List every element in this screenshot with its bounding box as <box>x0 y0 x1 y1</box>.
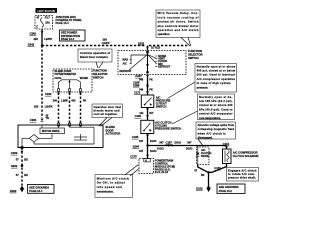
svg-text:DG/O: DG/O <box>175 141 181 144</box>
wire label 293 LB/PK <box>34 37 53 41</box>
svg-text:system air doors. Switch: system air doors. Switch <box>158 20 199 24</box>
ground G102 <box>196 186 211 192</box>
svg-text:LB/W: LB/W <box>61 100 68 103</box>
callout monitors a/c clutch <box>95 165 139 198</box>
svg-text:SWITCH: SWITCH <box>188 56 199 60</box>
svg-text:15A: 15A <box>45 22 50 25</box>
inline connector on bus <box>168 144 172 147</box>
svg-text:POTENTIOMETER: POTENTIOMETER <box>55 73 77 76</box>
svg-text:Normally open at be-: Normally open at be- <box>199 95 233 99</box>
svg-text:core temperature.: core temperature. <box>199 116 221 120</box>
svg-text:DG/O: DG/O <box>150 150 156 153</box>
actuator top pins <box>57 123 81 126</box>
svg-text:293: 293 <box>34 105 39 109</box>
powertrain control module (dashed box) <box>139 159 154 174</box>
svg-text:PK: PK <box>83 100 87 103</box>
wiper <box>68 80 70 89</box>
svg-text:LB/PK: LB/PK <box>102 41 110 45</box>
splice S202 <box>11 164 23 168</box>
svg-text:BK: BK <box>24 157 28 161</box>
bus wire 293 LB/PK (dashed, to selector area) <box>42 45 146 47</box>
svg-text:PAGE 13-4: PAGE 13-4 <box>29 189 43 193</box>
svg-text:293: 293 <box>103 38 108 42</box>
svg-text:control A/C evaporator: control A/C evaporator <box>199 112 233 116</box>
svg-text:21-9, 21-13: 21-9, 21-13 <box>155 170 169 174</box>
wire trunk fuse to splice <box>41 29 43 46</box>
svg-text:when A/C clutch is: when A/C clutch is <box>198 131 227 135</box>
svg-text:C: C <box>36 26 38 29</box>
svg-text:293: 293 <box>34 37 39 41</box>
bus label 293 LB/PK <box>102 38 110 46</box>
bus labels <box>157 140 192 150</box>
svg-text:C175: C175 <box>130 155 137 159</box>
splice S244 <box>133 144 149 148</box>
svg-text:PAGE 13-4: PAGE 13-4 <box>56 21 70 25</box>
connectors C228 C289 <box>133 81 149 89</box>
svg-text:idle speed and: idle speed and <box>97 185 122 189</box>
svg-text:Controls operation of: Controls operation of <box>80 51 110 55</box>
svg-text:C101: C101 <box>223 142 230 146</box>
trunk label 30 TN <box>46 114 50 120</box>
svg-text:SWITCH: SWITCH <box>156 104 167 108</box>
selector bottom pin <box>146 71 148 73</box>
svg-text:A/C: A/C <box>123 62 128 65</box>
svg-text:Absorbs voltage spike from: Absorbs voltage spike from <box>198 123 235 127</box>
svg-text:closed at or above 290: closed at or above 290 <box>199 103 233 107</box>
engages a/c clutch note <box>227 168 259 182</box>
svg-text:C284: C284 <box>30 118 37 122</box>
diode ground wire <box>198 165 209 173</box>
blend door actuator label <box>106 125 121 136</box>
svg-text:transmission.: transmission. <box>97 189 114 193</box>
svg-text:G202: G202 <box>10 189 17 193</box>
svg-text:S242: S242 <box>28 42 35 46</box>
actuator ground wire <box>21 148 23 190</box>
a/c clutch cycling pressure switch <box>141 120 154 133</box>
pot wire pins <box>57 93 82 96</box>
svg-text:C243: C243 <box>45 92 52 96</box>
svg-text:trols vacuum routing of: trols vacuum routing of <box>158 15 199 19</box>
connector to selector <box>146 46 160 51</box>
connector C171 <box>134 90 149 94</box>
a/c pressure cutout switch <box>141 95 154 108</box>
svg-text:in case of high system: in case of high system <box>197 81 232 85</box>
svg-text:DEFROST: DEFROST <box>120 70 132 73</box>
svg-text:240: 240 <box>53 100 58 103</box>
blend door actuator box <box>18 125 103 148</box>
svg-text:SEE GROUNDS: SEE GROUNDS <box>29 185 49 189</box>
see power distribution note <box>60 30 86 41</box>
vacuum note callout <box>156 10 200 46</box>
bus wire continuation right <box>149 45 188 47</box>
svg-text:31 Y/LB: 31 Y/LB <box>151 46 160 49</box>
svg-text:kPa (40.5 psi). Used to: kPa (40.5 psi). Used to <box>199 107 233 111</box>
power label HOT IN RUN <box>36 8 58 13</box>
svg-text:also controls blower motor: also controls blower motor <box>158 24 199 28</box>
svg-text:PAGE 13-2: PAGE 13-2 <box>219 189 233 193</box>
connector C284 <box>30 118 44 122</box>
wire 347 DG/O to splice <box>139 134 156 159</box>
svg-text:SEE GROUNDS: SEE GROUNDS <box>219 185 239 189</box>
svg-text:COOL: COOL <box>55 77 63 80</box>
svg-text:FUNCTION: FUNCTION <box>93 68 107 72</box>
svg-text:pressor drive shaft.: pressor drive shaft. <box>228 176 256 180</box>
blend door potentiometer (dashed box) <box>53 69 92 92</box>
a/c compressor clutch solenoid <box>223 146 232 164</box>
svg-text:With Vacuum Relay. Con-: With Vacuum Relay. Con- <box>158 11 199 15</box>
svg-text:SELECTOR: SELECTOR <box>188 53 203 57</box>
connector C237 <box>135 74 149 78</box>
svg-text:C185: C185 <box>132 135 139 139</box>
wire 141 B/Y <box>139 108 154 121</box>
splice junction <box>207 171 209 173</box>
svg-text:400 psi, closed at or below: 400 psi, closed at or below <box>197 69 236 73</box>
svg-text:SWITCH: SWITCH <box>93 75 104 79</box>
svg-text:Blend Door Actuator.: Blend Door Actuator. <box>80 55 109 59</box>
svg-text:347: 347 <box>139 150 144 153</box>
connector C190 <box>135 114 149 118</box>
svg-text:A/C COMPRESSOR: A/C COMPRESSOR <box>233 151 258 155</box>
wire 348 PK <box>139 88 153 91</box>
svg-text:A/C compressor operation: A/C compressor operation <box>197 77 236 81</box>
svg-text:BK: BK <box>201 174 205 177</box>
svg-text:C187: C187 <box>166 140 173 144</box>
svg-text:PK: PK <box>149 78 153 81</box>
svg-text:PK: PK <box>149 88 153 91</box>
pot wire labels <box>53 100 87 103</box>
connector C101 <box>223 142 230 149</box>
svg-text:DG/O: DG/O <box>186 147 192 150</box>
svg-text:S244: S244 <box>133 144 140 148</box>
pot pins <box>57 89 81 92</box>
svg-text:blends warm and: blends warm and <box>94 108 120 112</box>
svg-text:DEFROST: DEFROST <box>158 65 170 68</box>
svg-text:347: 347 <box>159 142 164 145</box>
text box C: diode description <box>196 122 236 147</box>
svg-text:348: 348 <box>139 78 144 81</box>
junction box fuse/relay panel (dashed) <box>35 16 53 30</box>
svg-text:PAGE 13-4: PAGE 13-4 <box>61 37 75 41</box>
svg-text:LB/PK: LB/PK <box>44 37 52 41</box>
a/c clutch diode (dashed box) <box>197 147 212 165</box>
svg-text:On-Off, to adjust: On-Off, to adjust <box>97 181 125 185</box>
potentiometer element <box>59 80 81 89</box>
svg-text:200 psi. Used to interrupt: 200 psi. Used to interrupt <box>197 73 236 77</box>
svg-text:low 165 kPa (24.2 psi),: low 165 kPa (24.2 psi), <box>199 99 233 103</box>
wire 348 PK <box>139 75 153 96</box>
bus wire 347 DG/O to clutch <box>148 145 227 147</box>
svg-text:BLEND: BLEND <box>106 125 115 129</box>
svg-text:LB/PK: LB/PK <box>45 105 53 109</box>
a/c compressor clutch solenoid label <box>233 151 259 158</box>
svg-text:Normally open at or above: Normally open at or above <box>197 64 236 68</box>
text box A: high pressure description <box>168 64 237 99</box>
svg-text:C242: C242 <box>30 31 37 35</box>
connector C209 <box>11 151 24 155</box>
a/c pressure cutout switch label <box>156 95 171 108</box>
wire label 57 BK <box>16 157 28 161</box>
trunk wire down (dashed) <box>41 46 43 119</box>
see grounds note (left) <box>28 185 55 194</box>
svg-text:DIODE: DIODE <box>201 155 209 158</box>
svg-text:FUNCTION: FUNCTION <box>188 49 202 53</box>
svg-text:WARM: WARM <box>80 77 88 80</box>
temperature selector switch label <box>93 68 108 79</box>
svg-text:DOOR: DOOR <box>106 128 114 132</box>
connector C175 <box>130 155 149 159</box>
callout controls blend door actuator <box>78 49 112 68</box>
svg-text:DG/O: DG/O <box>150 140 156 143</box>
svg-text:operation and A/C clutch: operation and A/C clutch <box>158 28 199 32</box>
svg-text:to rotate A/C com-: to rotate A/C com- <box>228 172 255 176</box>
svg-text:C190: C190 <box>135 114 142 118</box>
svg-text:TN: TN <box>46 117 50 120</box>
selector top pin <box>146 51 148 53</box>
svg-text:MOTOR DRIVE: MOTOR DRIVE <box>42 130 60 133</box>
svg-text:B/Y: B/Y <box>149 112 154 115</box>
wire 347 DG/O to PCM <box>139 150 156 153</box>
pot wire 1 (dashed) <box>58 93 60 123</box>
svg-text:C171: C171 <box>134 90 141 94</box>
selector internals <box>120 53 171 73</box>
pot wire 3 (dashed) <box>80 93 82 123</box>
svg-text:436: 436 <box>71 100 76 103</box>
motor drive module <box>40 128 65 134</box>
svg-text:Monitors A/C clutch: Monitors A/C clutch <box>97 176 129 180</box>
motor <box>29 135 38 143</box>
connector C242 <box>30 31 44 35</box>
svg-text:CLUTCH SOLENOID: CLUTCH SOLENOID <box>233 154 259 158</box>
svg-text:ACTUATOR: ACTUATOR <box>106 132 121 136</box>
svg-text:G102: G102 <box>196 186 203 190</box>
text box B: cycling switch description <box>172 94 235 124</box>
svg-text:S232: S232 <box>138 42 145 46</box>
svg-text:HOT IN RUN: HOT IN RUN <box>37 9 55 13</box>
PCM label <box>155 159 175 175</box>
svg-text:disengaged.: disengaged. <box>198 136 213 140</box>
svg-text:DG/O: DG/O <box>157 147 163 150</box>
see grounds note (right) <box>217 184 245 193</box>
actuator internal wiring <box>21 125 94 149</box>
callout operates door <box>92 104 123 126</box>
svg-text:S202: S202 <box>11 164 18 168</box>
svg-text:MAX: MAX <box>123 59 129 62</box>
function selector switch (dashed box) <box>118 51 186 75</box>
splice S242 <box>28 42 43 46</box>
svg-text:collapsing magnetic field: collapsing magnetic field <box>198 127 235 131</box>
a/c clutch cycling pressure switch label <box>155 121 181 131</box>
diode symbol <box>196 146 199 165</box>
svg-text:operation.: operation. <box>158 32 171 36</box>
connector C185 <box>132 134 149 139</box>
svg-text:C209: C209 <box>11 151 18 155</box>
fuse F2.7 15A <box>41 18 44 28</box>
function selector switch label <box>188 49 203 60</box>
svg-text:347: 347 <box>187 142 192 145</box>
svg-text:Engages A/C clutch: Engages A/C clutch <box>228 168 257 172</box>
svg-text:347: 347 <box>139 140 144 143</box>
ground wire 57 BK <box>194 169 208 188</box>
wire label 57 BK <box>16 173 28 177</box>
svg-text:BK: BK <box>24 173 28 177</box>
svg-text:C289: C289 <box>133 84 140 88</box>
svg-text:F2.7: F2.7 <box>45 17 51 20</box>
svg-text:SELECTOR: SELECTOR <box>93 72 108 76</box>
trunk label 293 LB/PK <box>34 105 53 109</box>
svg-text:Operates door that: Operates door that <box>94 105 122 109</box>
pot wire 2 (dashed) <box>69 93 71 123</box>
ground G202 <box>10 186 25 192</box>
junction box note text <box>56 15 83 25</box>
svg-text:C237: C237 <box>135 74 142 78</box>
solenoid ground wire with C101 <box>209 164 227 173</box>
svg-text:pressure.: pressure. <box>197 85 209 89</box>
svg-text:PRESSURE SWITCH: PRESSURE SWITCH <box>155 127 181 131</box>
svg-text:cool air together.: cool air together. <box>94 112 118 116</box>
svg-text:C101: C101 <box>214 166 221 170</box>
